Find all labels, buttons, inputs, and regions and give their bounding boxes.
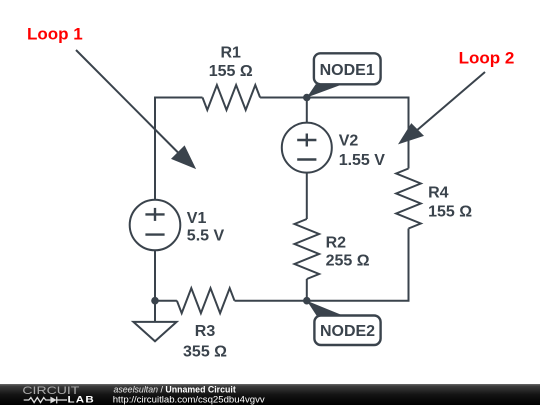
loop 2 arrow [398,72,485,144]
svg-text:Loop 1: Loop 1 [27,25,83,44]
voltage source V1 [130,200,181,251]
wire R4 bottom to bottom-right corner to NODE2 junction [307,229,409,301]
node flag NODE2 [307,301,381,345]
svg-text:R2: R2 [326,235,347,252]
junction dot NODE1 [303,94,311,102]
resistor R2 [295,219,320,279]
svg-text:R1: R1 [220,44,241,61]
svg-text:http://circuitlab.com/csq25dbu: http://circuitlab.com/csq25dbu4vgvv [113,395,265,405]
logo resistor-diode glyph [24,397,67,404]
ground [133,301,176,342]
svg-text:155 Ω: 155 Ω [209,63,253,80]
svg-text:1.55 V: 1.55 V [339,152,386,169]
wire top: R1 right lead to top-right corner down to R4 top [260,98,408,169]
svg-text:R4: R4 [428,185,449,202]
svg-text:V2: V2 [339,132,359,149]
resistor R3 [177,288,235,313]
svg-text:5.5 V: 5.5 V [187,228,225,245]
wire V2 top stub [306,98,308,124]
wire R2 bottom to NODE2 junction [306,279,308,301]
loop 1 arrow [76,50,196,169]
svg-text:NODE1: NODE1 [320,62,375,79]
resistor R4 [396,169,421,229]
junction dot NODE2 [303,297,311,305]
wire NODE2 junction to R3 right lead [235,300,307,302]
voltage source V2 [282,123,332,173]
wire left branch: R1 left lead to top-left corner down to V1 top [155,98,203,200]
wire V2 bottom to R2 top [306,173,308,219]
svg-text:155 Ω: 155 Ω [428,204,472,221]
svg-text:aseelsultan / Unnamed Circuit: aseelsultan / Unnamed Circuit [114,385,236,395]
svg-text:355 Ω: 355 Ω [183,343,227,360]
resistor R1 [203,85,261,110]
wire V1 bottom to ground junction [154,250,156,300]
svg-text:NODE2: NODE2 [320,323,375,340]
svg-text:Loop 2: Loop 2 [459,49,515,68]
junction dot ground node [151,297,159,305]
svg-text:LAB: LAB [68,395,96,405]
node flag NODE1 [307,53,381,97]
wire R3 left lead to ground junction [155,300,177,302]
footer bar [0,384,540,405]
svg-text:R3: R3 [195,323,216,340]
svg-text:255 Ω: 255 Ω [326,253,370,270]
svg-text:V1: V1 [187,210,207,227]
